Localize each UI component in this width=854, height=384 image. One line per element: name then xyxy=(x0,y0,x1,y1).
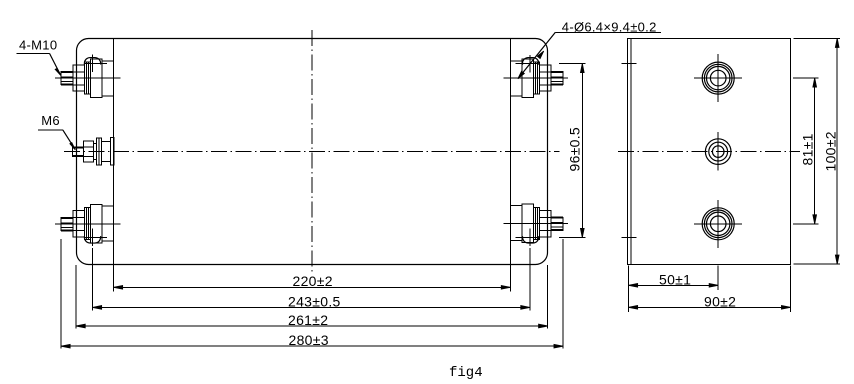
svg-text:280±3: 280±3 xyxy=(289,332,329,348)
svg-text:220±2: 220±2 xyxy=(293,273,333,289)
mounting slot top-left xyxy=(84,55,106,73)
extension lines bottom-left xyxy=(61,239,114,349)
left flange line xyxy=(113,39,115,265)
svg-text:96±0.5: 96±0.5 xyxy=(567,127,583,172)
right flange line xyxy=(510,39,512,265)
terminal M6 middle-left xyxy=(72,138,114,165)
label 4-M10 xyxy=(17,38,61,76)
caption fig4 xyxy=(449,365,483,381)
dimension 243±0.5 xyxy=(93,293,530,309)
svg-text:261±2: 261±2 xyxy=(288,312,328,328)
extension lines bottom-right xyxy=(510,239,563,349)
mounting slot bottom-right xyxy=(516,229,539,247)
vertical centerline xyxy=(311,30,313,274)
svg-text:M6: M6 xyxy=(41,113,60,128)
svg-text:fig4: fig4 xyxy=(449,365,483,381)
side terminal bottom xyxy=(694,200,742,248)
main view outline xyxy=(77,39,548,265)
dimension 261±2 xyxy=(76,312,547,328)
dimension 81±1 xyxy=(793,78,819,224)
terminal M10 bottom-right xyxy=(504,204,569,243)
terminal M10 top-left xyxy=(55,59,121,98)
side view centerline xyxy=(618,150,800,152)
terminal M10 top-right xyxy=(504,59,569,98)
label M6 xyxy=(38,113,75,150)
dimension 220±2 xyxy=(114,273,511,289)
side terminal top xyxy=(694,54,742,102)
svg-text:50±1: 50±1 xyxy=(659,271,691,287)
dimension 280±3 xyxy=(61,332,563,348)
side extension lines bottom xyxy=(629,266,791,312)
mounting slot top-right xyxy=(516,55,539,73)
dimension 50±1 xyxy=(629,271,719,287)
side view outline xyxy=(628,39,791,265)
svg-text:100±2: 100±2 xyxy=(823,131,839,171)
dimension 100±2 xyxy=(794,38,841,264)
mounting slot bottom-left xyxy=(84,229,106,247)
side terminal middle xyxy=(705,132,731,170)
dimension 96±0.5 xyxy=(559,64,586,238)
svg-text:81±1: 81±1 xyxy=(800,133,816,165)
svg-text:243±0.5: 243±0.5 xyxy=(288,293,341,309)
horizontal centerline xyxy=(64,151,560,153)
dimension 90±2 xyxy=(629,293,791,309)
terminal M10 bottom-left xyxy=(55,204,121,243)
svg-text:4-M10: 4-M10 xyxy=(19,38,57,53)
svg-text:90±2: 90±2 xyxy=(704,293,736,309)
side view slot ticks xyxy=(621,64,636,238)
label 4-slot diameter xyxy=(518,19,661,78)
